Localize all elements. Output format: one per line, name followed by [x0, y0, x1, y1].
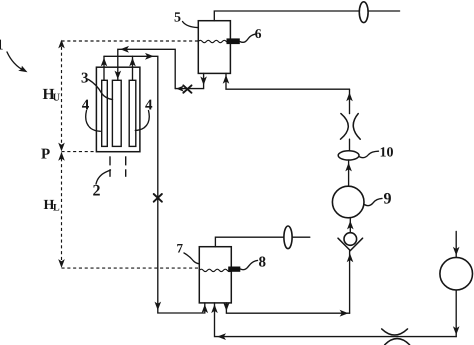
arrow up into vessel 5 [223, 75, 230, 84]
svg-text:L: L [53, 203, 60, 214]
svg-text:P: P [41, 146, 50, 162]
fuel-cell stack box 2 [96, 67, 139, 152]
pump/fan ellipse on top line [359, 2, 368, 23]
leader 2 [96, 170, 111, 184]
wire: vessel 5 bottom drain through valve [175, 73, 203, 88]
wire: stub into right pump [455, 231, 457, 257]
wire: riser x350 from compressor to corner [349, 89, 351, 113]
svg-text:1: 1 [0, 38, 4, 54]
wire: left riser from left bar [103, 56, 105, 80]
wire: line B collecting risers, to long downcomer [104, 56, 205, 313]
svg-text:7: 7 [177, 241, 184, 256]
arrow down on drain [200, 76, 207, 85]
leader 4 right [135, 111, 149, 131]
stack leads below (node 2 wires) [110, 156, 126, 177]
leader arrow for 1 [7, 52, 24, 71]
wire: vessel 7 bottom outlet to bottom header [226, 303, 349, 313]
leader 9 [364, 198, 382, 205]
valve X on drain [183, 85, 191, 92]
gauge ellipse on vessel 7 vapor line [284, 226, 292, 249]
heater block 8 [228, 267, 240, 272]
leader 3 [89, 80, 113, 100]
wire: right pump outlet to lower header [455, 290, 457, 337]
arrow down into middle bar [115, 71, 122, 80]
compressor 9 [332, 186, 364, 218]
check valve: stem above ball [349, 218, 351, 233]
svg-text:3: 3 [81, 71, 89, 87]
svg-text:8: 8 [259, 255, 267, 271]
restrictor (horizontal) on lower header [382, 329, 408, 335]
wire: vessel 7 vapor line with gauge ellipse [215, 237, 309, 247]
dashed level line upper (HU dimension) [62, 41, 200, 268]
leader 5 [183, 22, 198, 28]
svg-text:10: 10 [380, 146, 394, 161]
electrode bar middle 3 [112, 80, 121, 146]
wire: ellipse 10 down to compressor 9 [348, 160, 350, 186]
wire: lower return header into vessel 7 [215, 303, 457, 337]
leader 6 [240, 34, 255, 42]
arrow down at downcomer bottom [155, 302, 162, 311]
leader 10 [359, 151, 378, 157]
svg-text:2: 2 [93, 183, 101, 200]
wire: right riser from right bar [132, 56, 134, 80]
arrow left on line A [120, 46, 129, 53]
restrictor (vertical throat) [341, 114, 349, 140]
liquid level wave in vessel 7 [199, 269, 231, 271]
wire: throat to flow ellipse 10 [349, 139, 351, 151]
liquid level wave in vessel 5 [198, 40, 230, 42]
vessel 5 [198, 21, 230, 74]
right pump circle [440, 257, 473, 290]
arrow right on line B [145, 53, 154, 60]
wire: line A from valve corner into middle bar [118, 49, 175, 88]
vessel 7 [199, 247, 231, 303]
valve X on downcomer [154, 194, 162, 202]
wire: return into vessel 5 bottom right [226, 73, 350, 89]
heater block 6 [227, 38, 240, 44]
leader 4 left [86, 111, 101, 132]
flow element 10 [338, 151, 359, 160]
wire: up from bottom header to check valve [349, 251, 351, 314]
wire: vessel 5 top to condenser line [214, 11, 399, 21]
dimension arrowheads on dashed lines [58, 40, 65, 49]
electrode bar left 4 [102, 80, 108, 146]
check valve seat V [338, 238, 363, 250]
leader 7 [184, 253, 199, 264]
electrode bar right 4 [129, 80, 136, 146]
leader 8 [240, 260, 257, 269]
arrow up into vessel 7 left port [202, 304, 209, 313]
arrow left before corner [176, 86, 184, 92]
svg-text:U: U [53, 93, 61, 104]
check valve ball [344, 233, 357, 246]
svg-text:5: 5 [174, 10, 181, 25]
svg-text:9: 9 [384, 190, 392, 207]
svg-text:6: 6 [255, 26, 262, 41]
